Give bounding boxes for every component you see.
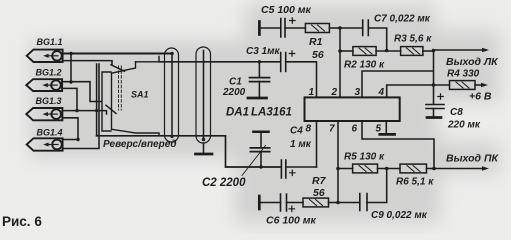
svg-text:R6 5,1 к: R6 5,1 к [396, 177, 434, 188]
wire node to R2 [340, 50, 353, 52]
svg-text:56: 56 [313, 187, 325, 199]
supply arrow +6V [475, 84, 483, 86]
terminal bar C5 [258, 22, 261, 35]
svg-text:C4: C4 [290, 126, 303, 137]
svg-text:2: 2 [331, 87, 338, 98]
ground of shield 2 [203, 143, 205, 153]
switch SA1 lower lever [106, 105, 116, 113]
svg-text:C1: C1 [229, 77, 242, 88]
resistor R4 [447, 69, 480, 90]
node R1/C7/pin2 [338, 26, 342, 30]
wire bus head1-head2 [70, 54, 72, 83]
wire head2 top to lower section [62, 82, 101, 102]
svg-text:C8: C8 [450, 107, 463, 118]
capacitor C3 [246, 46, 295, 72]
svg-text:BG1.1: BG1.1 [37, 37, 63, 47]
node C1 top [258, 60, 261, 63]
head BG1.1 [27, 37, 63, 62]
svg-text:LA3161: LA3161 [251, 107, 292, 119]
connector funnel body [112, 57, 160, 136]
svg-text:5: 5 [376, 124, 382, 135]
node output PK [432, 167, 436, 171]
capacitor C6 [266, 194, 317, 227]
svg-text:Рис. 6: Рис. 6 [2, 214, 42, 229]
svg-text:56: 56 [312, 49, 324, 61]
wire pin6 to output PK [362, 121, 434, 169]
shield oval 1 [165, 48, 179, 142]
wire head1 bottom to switch [63, 61, 112, 65]
wire C4 to pin8 [286, 166, 317, 168]
svg-text:7: 7 [329, 124, 335, 135]
svg-text:R3 5,6 к: R3 5,6 к [394, 34, 432, 45]
svg-text:BG1.4: BG1.4 [37, 128, 63, 138]
svg-text:C3 1мк: C3 1мк [246, 46, 281, 57]
capacitor C8 [426, 85, 481, 131]
wire pin4 to supply node [387, 85, 434, 97]
node R2 left [338, 49, 342, 53]
wire pin2 riser [339, 28, 341, 97]
ground of C2 [253, 131, 268, 134]
wire head3 top to switch [62, 111, 106, 114]
svg-text:Выход ЛК: Выход ЛК [446, 56, 499, 68]
svg-text:4: 4 [378, 87, 385, 98]
wire head4 top [63, 139, 78, 141]
wire head3 bottom [62, 118, 78, 140]
svg-text:SA1: SA1 [131, 90, 149, 100]
wire to C6 [259, 202, 280, 204]
capacitor C4 [281, 126, 311, 179]
capacitor C9 [360, 194, 428, 222]
wire pin7 riser [337, 121, 339, 203]
wire pin8 riser [316, 121, 318, 167]
wire C7 to R2R3 node [368, 28, 386, 50]
resistor R7 [303, 175, 329, 207]
wire node to R4 [434, 84, 450, 86]
svg-text:C7 0,022 мк: C7 0,022 мк [374, 14, 431, 25]
wire top signal to C3 [159, 61, 281, 63]
capacitor C2 [202, 133, 270, 189]
output arrow PK [434, 168, 484, 170]
capacitor C5 [261, 4, 312, 37]
capacitor C7 [363, 14, 431, 36]
switch SA1 mechanical link [119, 66, 122, 110]
svg-text:C9 0,022 мк: C9 0,022 мк [371, 210, 428, 221]
svg-text:Реверс/вперед: Реверс/вперед [103, 139, 177, 150]
wire R3 to output node [423, 50, 434, 52]
shield oval 2 [196, 47, 211, 143]
wire pin5 stub [385, 121, 387, 133]
resistor R6 [396, 164, 434, 187]
svg-text:C6 100 мк: C6 100 мк [266, 215, 317, 227]
wire bottom signal to C2 line [97, 136, 281, 167]
wire node to C7 [340, 27, 363, 29]
resistor R2 [344, 47, 385, 71]
svg-text:1: 1 [309, 87, 315, 98]
node on head3 wire [95, 109, 98, 112]
svg-text:2200: 2200 [222, 87, 246, 98]
svg-text:3: 3 [355, 87, 361, 98]
node head4 wire [76, 138, 79, 141]
op-amp IC DA1 LA3161 [226, 97, 400, 121]
ground of pin5 [380, 133, 395, 136]
wire R1 to node [329, 27, 340, 29]
svg-text:BG1.3: BG1.3 [36, 96, 62, 106]
svg-text:R4 330: R4 330 [447, 69, 480, 80]
ground of C1 [248, 97, 267, 100]
wire R6 to output node [427, 168, 435, 170]
svg-text:DA1: DA1 [226, 107, 249, 119]
svg-text:8: 8 [306, 124, 312, 135]
resistor R1 [305, 24, 329, 62]
wire R2 to node [376, 50, 401, 52]
wire R5 lead [338, 168, 353, 170]
wire R7 to pin7 node [329, 202, 339, 204]
wire head1 top to shield 1 [63, 53, 172, 55]
svg-text:6: 6 [352, 124, 358, 135]
node head2 top [69, 80, 72, 83]
wire R5 to node [378, 168, 401, 170]
capacitor C1 [222, 62, 270, 98]
svg-text:C5 100 мк: C5 100 мк [261, 4, 312, 16]
svg-text:R5 130 к: R5 130 к [344, 152, 385, 163]
svg-text:R7: R7 [312, 175, 327, 187]
head BG1.3 [26, 96, 62, 120]
node output LK [432, 49, 436, 53]
svg-text:220 мк: 220 мк [447, 120, 481, 131]
node R2/R3 [385, 49, 389, 53]
wire switch pole riser [96, 64, 98, 136]
wire C6 to R7 [287, 202, 304, 204]
svg-text:BG1.2: BG1.2 [36, 68, 62, 78]
wire C5 to R1 [285, 27, 305, 29]
wire head4 bottom riser [63, 64, 99, 149]
resistor R5 [344, 152, 385, 173]
node on head1 wire [69, 52, 72, 55]
node head3 top [75, 109, 78, 112]
connector bracket [102, 72, 111, 131]
resistor R3 [394, 34, 432, 56]
wire to C5 [259, 27, 280, 29]
wire inside shield 2 [203, 51, 205, 140]
wire node to C9 [338, 202, 360, 204]
head BG1.2 [26, 68, 62, 92]
svg-text:+6 В: +6 В [469, 91, 492, 103]
svg-text:R1: R1 [309, 36, 323, 48]
svg-text:1 мк: 1 мк [290, 139, 312, 150]
svg-text:R2 130 к: R2 130 к [344, 60, 385, 71]
svg-text:Выход ПК: Выход ПК [446, 153, 500, 165]
switch SA1 upper lever [111, 65, 125, 71]
wire C3 to pin1 [286, 62, 317, 98]
head BG1.4 [27, 128, 63, 151]
node R7 right [336, 201, 340, 205]
svg-text:C2 2200: C2 2200 [202, 177, 246, 189]
node R5 left [336, 167, 340, 171]
node C2 top [259, 165, 262, 168]
ground of C8 [427, 116, 441, 119]
terminal bar C6 [258, 196, 261, 209]
wire pin3 to output node [362, 51, 434, 98]
wire inside shield 1 [171, 54, 173, 137]
wire C9 to R5R6 node [367, 169, 387, 203]
node R4/C8 [432, 83, 436, 87]
output arrow LK [434, 49, 487, 51]
node R5/R6 [385, 167, 389, 171]
wire head2 bottom bus [62, 88, 77, 110]
